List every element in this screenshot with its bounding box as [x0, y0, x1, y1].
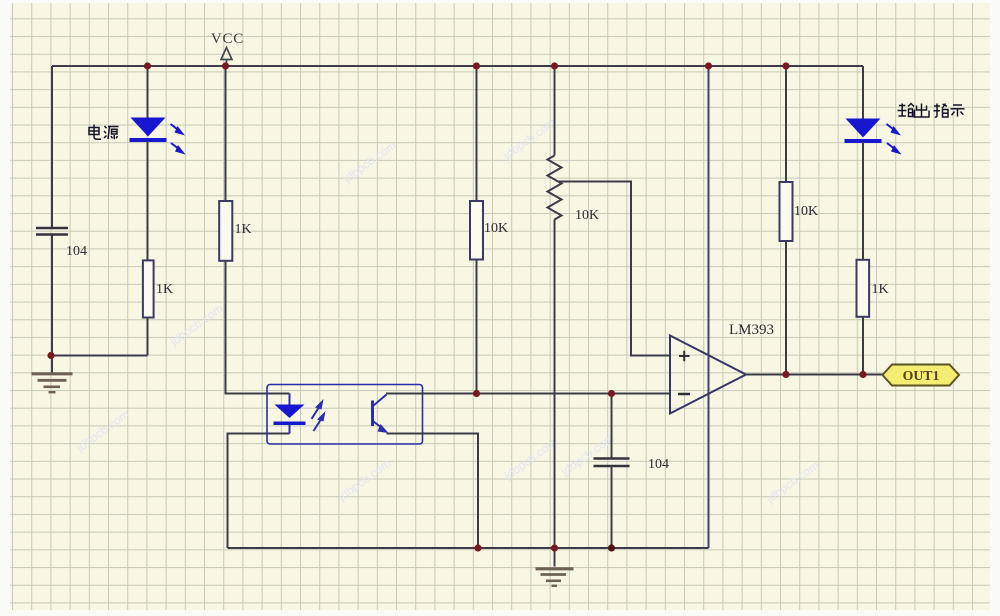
junction node ground-left — [47, 352, 54, 359]
resistor R1 1K — [219, 201, 232, 261]
wire LED D2 to R5 — [862, 142, 864, 260]
LED D2 output indicator — [845, 119, 882, 144]
ground GND1 — [32, 356, 73, 393]
junction node inverting-R3 — [473, 390, 480, 397]
svg-text:VCC: VCC — [211, 31, 244, 47]
wire inverting node to C2 — [611, 394, 613, 459]
LED D1 power indicator — [130, 118, 167, 143]
optocoupler U2 phototransistor Q1 — [373, 395, 389, 434]
junction node rail-R3 — [473, 62, 480, 69]
svg-text:104: 104 — [66, 244, 87, 259]
wire R5 to output node — [862, 317, 864, 375]
junction node rail-VCC-R1 — [222, 62, 229, 69]
wire RV1 to ground rail — [554, 220, 556, 549]
optocoupler U2 box — [267, 385, 423, 445]
net flag OUT1 — [883, 365, 960, 386]
wire R4 to output node — [785, 241, 787, 375]
svg-text:10K: 10K — [794, 204, 818, 219]
wire ground horizontal — [52, 355, 148, 357]
LED D2 emission arrow 1 — [887, 124, 902, 136]
wire C1 to ground node — [51, 235, 53, 356]
VCC power symbol — [221, 48, 232, 67]
label 电源 — [89, 125, 119, 140]
junction node rail-emitter — [474, 544, 481, 551]
resistor R5 1K — [857, 260, 870, 317]
wire left drop from rail to C1 — [51, 66, 53, 228]
wire R3 to inverting input wire — [476, 260, 478, 394]
wire R1 to optocoupler anode — [226, 261, 290, 394]
wire collector to op-amp inverting input — [386, 393, 670, 395]
wire VCC top rail — [52, 65, 863, 67]
svg-text:LM393: LM393 — [729, 322, 774, 338]
wire rail to R3 — [476, 66, 478, 202]
optocoupler U2 photon arrow 1 — [312, 399, 324, 419]
junction node rail-C2 — [608, 544, 615, 551]
junction node rail-GND2 — [551, 544, 558, 551]
op-amp U1 LM393 — [670, 336, 746, 414]
resistor R4 10K — [780, 182, 793, 241]
wire rail to potentiometer RV1 — [554, 66, 556, 156]
junction node rail-R4 — [782, 62, 789, 69]
junction node rail-D1 — [144, 62, 151, 69]
junction node output-R5 — [859, 371, 866, 378]
svg-text:1K: 1K — [235, 222, 252, 237]
ground GND2 — [536, 548, 574, 586]
wire op-amp output — [746, 374, 883, 376]
svg-text:1K: 1K — [156, 282, 173, 297]
LED D1 emission arrow 2 — [171, 143, 186, 155]
svg-text:10K: 10K — [575, 208, 599, 223]
LED D2 emission arrow 2 — [887, 143, 902, 155]
svg-text:1K: 1K — [872, 282, 889, 297]
wire R2 to ground node — [147, 318, 149, 356]
wire LM393 power line — [708, 66, 710, 548]
junction node rail-power-line — [705, 62, 712, 69]
optocoupler U2 photon arrow 2 — [314, 411, 326, 431]
svg-text:OUT1: OUT1 — [903, 368, 940, 383]
resistor R2 1K — [143, 260, 154, 317]
potentiometer RV1 10K zigzag — [548, 156, 562, 220]
optocoupler U2 LED — [274, 394, 306, 434]
wire LED D1 to R2 — [147, 141, 149, 261]
svg-text:104: 104 — [648, 457, 669, 472]
watermark texts — [73, 115, 822, 506]
svg-text:10K: 10K — [484, 221, 508, 236]
wire RV1 tap to op-amp non-inverting input — [559, 182, 671, 356]
junction node rail-RV1 — [551, 62, 558, 69]
wire ground bottom rail — [228, 547, 709, 549]
wire C2 to ground rail — [611, 467, 613, 549]
wire rail right corner to LED D2 — [862, 66, 864, 119]
label 输出指示 — [898, 104, 965, 118]
junction node output-R4 — [782, 371, 789, 378]
capacitor C2 104 — [594, 459, 630, 467]
wire rail to LED D1 — [147, 66, 149, 118]
resistor R3 10K — [470, 201, 483, 260]
junction node inverting-C2 — [608, 390, 615, 397]
wire emitter to ground rail — [387, 434, 479, 549]
wire optocoupler cathode return — [228, 434, 290, 549]
capacitor C1 104 — [36, 228, 68, 235]
wire rail to R1 — [225, 66, 227, 202]
LED D1 emission arrow 1 — [171, 124, 186, 136]
wire rail to R4 — [785, 66, 787, 183]
